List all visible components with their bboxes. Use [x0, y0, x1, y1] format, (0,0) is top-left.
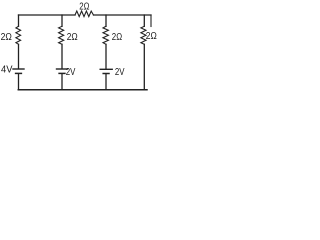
svg-text:2Ω: 2Ω — [79, 2, 90, 13]
svg-text:2Ω: 2Ω — [1, 32, 13, 43]
svg-text:2V: 2V — [115, 67, 125, 78]
svg-text:2Ω: 2Ω — [146, 31, 157, 42]
svg-text:2V: 2V — [66, 67, 76, 78]
svg-text:2Ω: 2Ω — [67, 32, 78, 43]
svg-text:2Ω: 2Ω — [112, 32, 123, 43]
svg-text:4V: 4V — [1, 65, 13, 76]
